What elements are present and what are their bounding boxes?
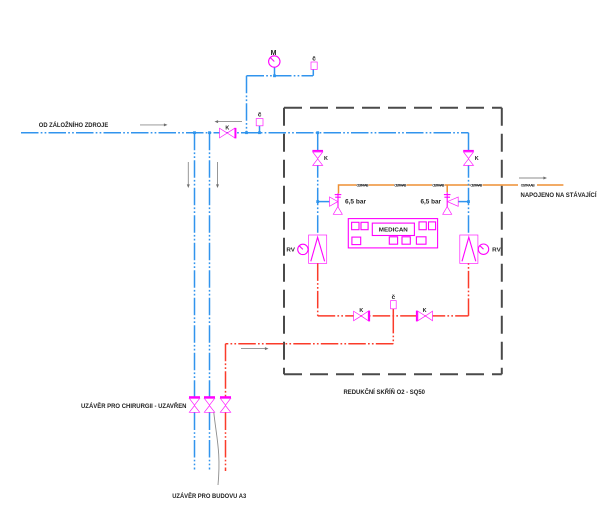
svg-text:UZÁVĚR PRO BUDOVU A3: UZÁVĚR PRO BUDOVU A3 bbox=[172, 491, 246, 500]
safety valve RV left bbox=[286, 235, 326, 263]
sensor č main line bbox=[256, 112, 263, 126]
wire main blue supply line bbox=[21, 132, 469, 134]
gauge M bbox=[269, 50, 280, 67]
wire riser to gauge assembly bbox=[246, 76, 248, 133]
wire red drop from RV left bbox=[317, 263, 319, 316]
shutoff valve riser 1 bbox=[189, 396, 200, 412]
svg-text:M: M bbox=[271, 50, 277, 57]
safety valve RV right bbox=[460, 235, 501, 263]
wire red bottom header bbox=[318, 315, 469, 317]
wire orange distribution line to existing network bbox=[339, 185, 564, 194]
svg-text:REDUKČNÍ SKŘÍŇ O2 - SQ50: REDUKČNÍ SKŘÍŇ O2 - SQ50 bbox=[344, 387, 426, 396]
wire branch to regulator left bbox=[318, 201, 330, 203]
wire cabinet right blue drop bbox=[468, 133, 470, 235]
svg-text:č: č bbox=[312, 55, 316, 62]
svg-text:K: K bbox=[225, 125, 229, 131]
regulator left 6,5 bar bbox=[330, 193, 367, 214]
wire sensor stem top bbox=[312, 69, 314, 75]
regulator right 6,5 bar bbox=[421, 192, 459, 214]
valve K1 red left bbox=[354, 308, 370, 321]
wire red drop from RV right bbox=[468, 263, 470, 316]
sensor č top bbox=[311, 55, 317, 69]
svg-text:K: K bbox=[324, 156, 328, 162]
svg-text:OD ZÁLOŽNÍHO ZDROJE: OD ZÁLOŽNÍHO ZDROJE bbox=[39, 120, 109, 129]
svg-text:č: č bbox=[392, 294, 396, 301]
svg-text:6,5 bar: 6,5 bar bbox=[421, 199, 442, 206]
wire sensor stem main line bbox=[259, 126, 261, 133]
svg-text:UZÁVĚR PRO CHIRURGII - UZAVŘEN: UZÁVĚR PRO CHIRURGII - UZAVŘEN bbox=[81, 401, 187, 410]
sensor č red header bbox=[391, 294, 397, 316]
svg-text:RV: RV bbox=[492, 248, 501, 254]
leader line to building A3 label bbox=[214, 413, 219, 485]
valve K cabinet right bbox=[463, 150, 479, 166]
flow arrow left above valve K bbox=[215, 120, 243, 123]
valve K cabinet left bbox=[312, 150, 328, 166]
svg-text:K: K bbox=[475, 156, 479, 162]
cabinet enclosure REDUKČNÍ SKŘÍŇ O2 - SQ50 bbox=[284, 107, 502, 109]
wire branch riser chirurgie 1 bbox=[194, 133, 196, 397]
svg-text:K: K bbox=[423, 308, 427, 314]
wire red outlet drop bbox=[392, 316, 394, 344]
svg-text:č: č bbox=[258, 112, 262, 119]
wire cabinet left blue drop bbox=[317, 133, 319, 235]
wire branch to regulator right bbox=[458, 201, 468, 203]
svg-text:RV: RV bbox=[286, 248, 295, 254]
shutoff valve riser 2 bbox=[204, 396, 215, 412]
wire red riser to building A3 bbox=[225, 344, 227, 397]
shutoff valve riser 3 red bbox=[220, 396, 231, 412]
flow arrow to existing network bbox=[519, 177, 547, 180]
flow arrow down riser 1 bbox=[187, 162, 190, 188]
wire gauge stem bbox=[274, 67, 276, 76]
wire red outlet run left bbox=[226, 343, 394, 345]
flow arrow on red outlet bbox=[241, 347, 269, 350]
node junction dots bbox=[193, 74, 470, 203]
MEDICAN control box bbox=[348, 219, 437, 248]
svg-text:OSTRA AB: OSTRA AB bbox=[521, 184, 536, 188]
svg-text:K: K bbox=[359, 308, 363, 314]
svg-text:NAPOJENO NA STÁVAJÍCÍ: NAPOJENO NA STÁVAJÍCÍ bbox=[521, 190, 598, 199]
svg-text:MEDICAN: MEDICAN bbox=[379, 228, 408, 234]
svg-text:OSTRA AB: OSTRA AB bbox=[432, 184, 445, 188]
wire gauge header bbox=[247, 75, 314, 77]
valve K main supply bbox=[220, 125, 237, 138]
flow arrow on main supply bbox=[140, 123, 168, 126]
wire branch riser chirurgie 2 bbox=[209, 133, 211, 397]
flow arrow down riser 2 bbox=[216, 162, 219, 188]
svg-text:OSTRA AB: OSTRA AB bbox=[470, 184, 483, 188]
svg-text:OSTRA AB: OSTRA AB bbox=[357, 184, 370, 188]
svg-text:OSTRA AB: OSTRA AB bbox=[394, 184, 407, 188]
svg-text:6,5 bar: 6,5 bar bbox=[345, 199, 367, 206]
valve K2 red right bbox=[416, 308, 433, 321]
